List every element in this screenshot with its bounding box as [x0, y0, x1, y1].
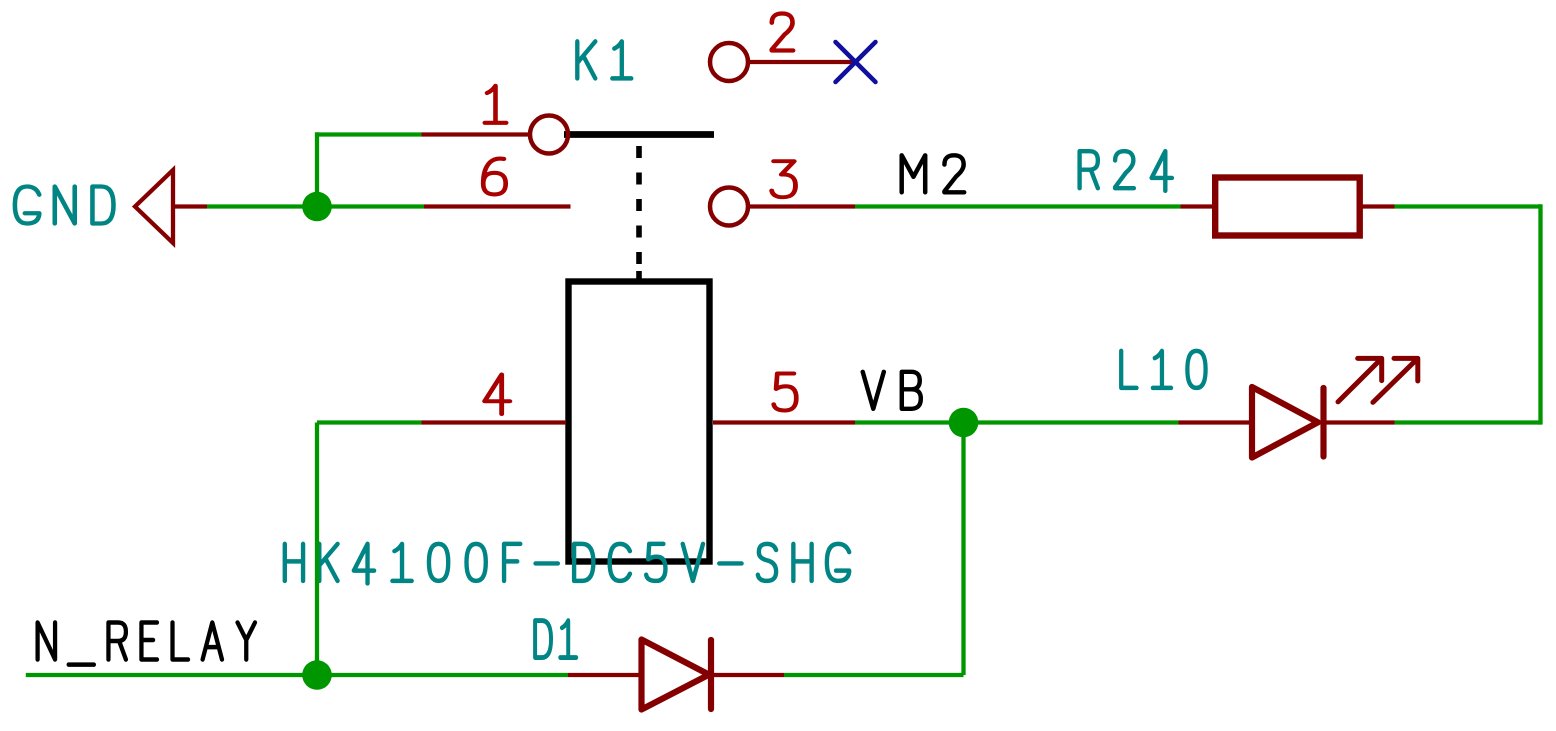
- resistor R24: [1181, 204, 1216, 208]
- pin number 4: [485, 375, 510, 415]
- relay K1 pin 1: [422, 132, 529, 136]
- pin number 1: [485, 86, 506, 123]
- reference L10: [1121, 351, 1205, 388]
- wire corner to D1: [784, 673, 964, 677]
- pin number 2: [772, 14, 793, 51]
- GND power symbol: [135, 170, 207, 243]
- relay K1 pin 5: [713, 420, 855, 424]
- wire junction to pin6: [317, 204, 424, 208]
- wire GND to junction: [207, 204, 317, 208]
- reference R24: [1080, 151, 1172, 191]
- label GND: [15, 187, 114, 224]
- wire N_RELAY to D1: [26, 673, 568, 677]
- net label VB: [863, 372, 921, 409]
- wire vertical pin1 to junction: [315, 132, 319, 208]
- relay K1 pin 4: [422, 420, 567, 424]
- net label M2: [902, 155, 965, 192]
- wire R24 to right rail: [1395, 204, 1541, 208]
- diode D1: [568, 673, 642, 677]
- reference D1: [535, 621, 576, 658]
- junction GND net: [302, 192, 332, 222]
- wire pin3 to R24 (net M2): [855, 204, 1181, 208]
- net label N_RELAY: [38, 623, 255, 665]
- reference K1: [577, 41, 631, 78]
- wire corner to pin4: [317, 420, 422, 424]
- LED L10 emission arrows: [1338, 358, 1382, 402]
- wire right rail vertical: [1538, 204, 1542, 424]
- wire junction up to pin4 corner: [315, 423, 319, 676]
- relay K1 switch blade: [564, 131, 714, 138]
- relay K1 pin 3: [750, 204, 856, 208]
- relay K1 pin 2: [750, 60, 856, 64]
- pin number 3: [772, 161, 796, 197]
- relay K1 actuator dashed line: [636, 146, 642, 283]
- junction N_RELAY net: [302, 660, 332, 690]
- pin number 5: [774, 374, 797, 411]
- wire rail to LED: [1395, 420, 1541, 424]
- value HK4100F-DC5V-SHG: [285, 544, 849, 584]
- pin number 6: [483, 159, 505, 195]
- junction VB net: [949, 408, 979, 438]
- LED L10: [1179, 420, 1254, 424]
- relay K1 pin 6: [424, 204, 571, 208]
- relay K1 coil body: [569, 282, 710, 562]
- wire to pin1: [317, 132, 422, 136]
- no-connect on pin 2: [836, 42, 876, 82]
- wire pin5 to LED (net VB): [855, 420, 1179, 424]
- wire VB junction down: [961, 423, 965, 676]
